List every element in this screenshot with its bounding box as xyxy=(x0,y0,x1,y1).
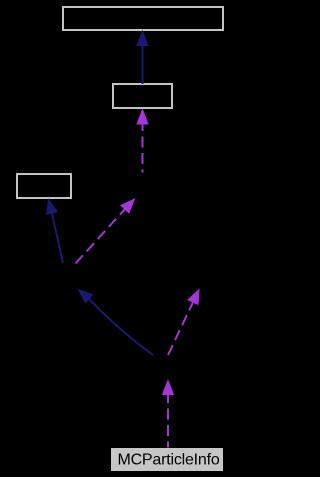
node box A (top base class) xyxy=(63,7,223,30)
node box C (left class) xyxy=(17,174,71,198)
usage arrow hidden node N3 to B (dashed purple, vertical) xyxy=(137,110,148,173)
usage arrow hidden node J1 to hidden node N3 (dashed purple) xyxy=(76,199,135,264)
usage arrow MCParticleInfo to hidden node N1 (dashed purple, vertical) xyxy=(163,381,174,448)
inheritance arrow hidden node J1 to C (solid blue) xyxy=(47,200,63,264)
usage arrow hidden node N1 to hidden node N2 (dashed purple) xyxy=(168,290,199,356)
inheritance arrow hidden node N1 to hidden node J1 (solid blue) xyxy=(79,290,154,356)
node box B (second-level class) xyxy=(113,84,172,108)
svg-text:MCParticleInfo: MCParticleInfo xyxy=(117,452,219,469)
node MCParticleInfo (current class, gray filled) xyxy=(111,448,223,471)
inheritance arrow B to A (solid blue) xyxy=(137,31,148,84)
